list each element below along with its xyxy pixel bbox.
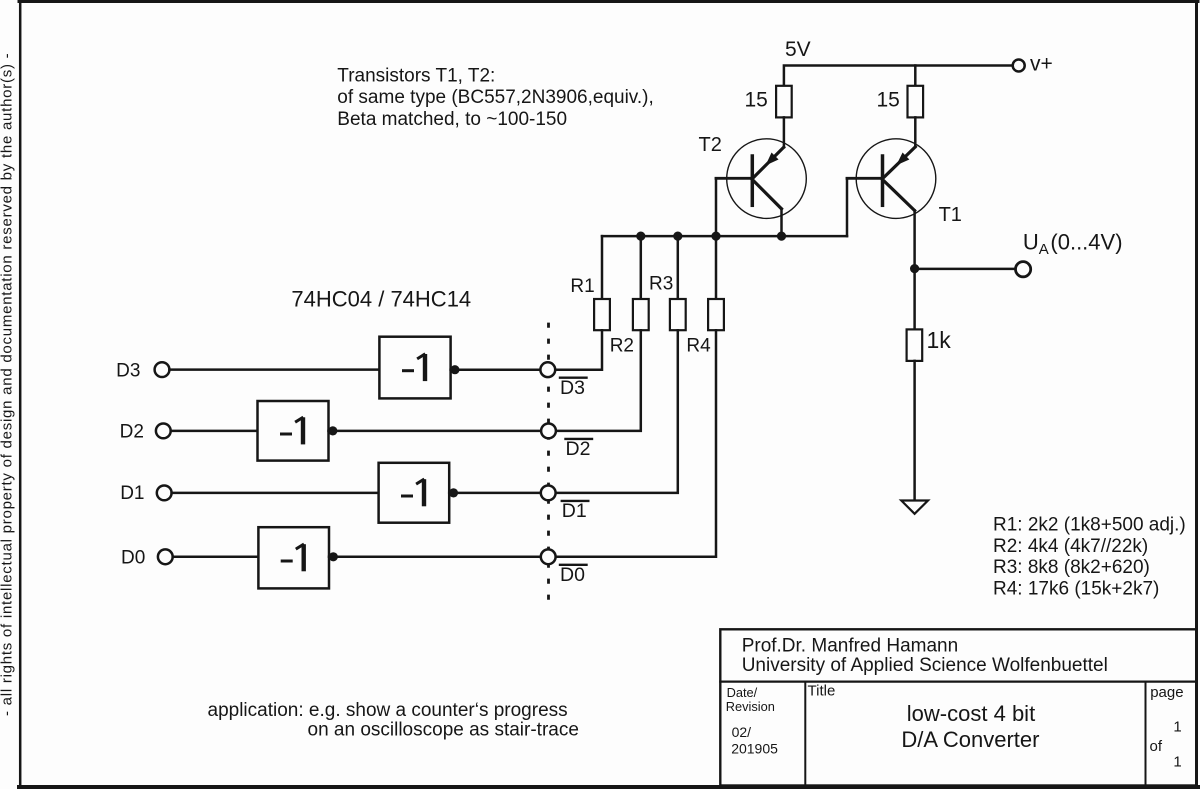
wire 5V rail (784, 66, 1013, 86)
wire D3 input (169, 368, 379, 371)
resistor R3 (670, 299, 686, 330)
wire inverter D1 output (449, 492, 541, 495)
svg-text:1: 1 (1173, 754, 1181, 771)
svg-text:D0: D0 (121, 548, 145, 569)
svg-text:R3: 8k8 (8k2+620): R3: 8k8 (8k2+620) (993, 557, 1150, 578)
svg-text:Transistors T1, T2:: Transistors T1, T2: (337, 65, 495, 86)
svg-text:Title: Title (808, 683, 836, 700)
terminal UA output (1016, 262, 1031, 277)
junction dot inverter D2 output (328, 426, 337, 435)
svg-text:15: 15 (877, 89, 900, 112)
wire v+ resistor tap (914, 66, 917, 86)
terminal D3 input (155, 362, 170, 377)
svg-text:R1: 2k2 (1k8+500 adj.): R1: 2k2 (1k8+500 adj.) (993, 515, 1186, 536)
svg-text:15: 15 (745, 89, 768, 112)
note transistors T1 T2 (337, 65, 654, 130)
svg-text:D/A Converter: D/A Converter (901, 727, 1039, 752)
svg-text:D2: D2 (120, 422, 144, 443)
junction dot output node (910, 264, 919, 273)
svg-text:D1: D1 (562, 500, 587, 522)
inverter D1 (379, 463, 450, 523)
label D1bar (562, 500, 589, 522)
wire summing bus (602, 235, 847, 238)
svg-text:Date/: Date/ (727, 685, 758, 700)
svg-text:- all rights of intellectual p: - all rights of intellectual property of… (0, 53, 16, 716)
junction dot R2/bus (636, 232, 645, 241)
resistor 15 (left, T2 emitter) (776, 86, 792, 118)
junction dot R4/bus (711, 232, 720, 241)
svg-text:page: page (1150, 684, 1183, 701)
inverter D0 (258, 527, 329, 588)
svg-text:low-cost 4 bit: low-cost 4 bit (907, 701, 1035, 726)
wire output node to 1k (913, 269, 916, 330)
note application (208, 700, 579, 741)
svg-text:of same type (BC557,2N3906,equ: of same type (BC557,2N3906,equiv.), (337, 87, 654, 108)
node D1bar (541, 486, 556, 501)
label UA (0...4V) (1023, 230, 1123, 259)
note resistor values (993, 515, 1186, 600)
svg-text:5V: 5V (785, 38, 811, 61)
dotted net boundary line (547, 323, 550, 604)
junction dot inverter D1 output (449, 488, 458, 497)
resistor R4 (708, 299, 724, 330)
wire output node to terminal (915, 268, 1015, 271)
svg-text:R1: R1 (570, 276, 594, 297)
resistor R2 (633, 299, 649, 330)
svg-text:v+: v+ (1030, 53, 1053, 76)
svg-text:R2: R2 (610, 336, 634, 357)
svg-text:R4: R4 (686, 336, 711, 357)
svg-text:Prof.Dr. Manfred Hamann: Prof.Dr. Manfred Hamann (742, 636, 958, 657)
wire R2 bottom lead (556, 330, 640, 431)
svg-text:A: A (1039, 241, 1049, 258)
junction dot inverter D0 output (329, 552, 338, 561)
wire D2 input (171, 430, 258, 433)
svg-text:of: of (1150, 738, 1163, 755)
junction dot inverter D3 output (450, 365, 459, 374)
svg-text:Beta matched, to ~100-150: Beta matched, to ~100-150 (337, 109, 567, 130)
title block (720, 629, 1196, 785)
wire R2 top lead (640, 236, 643, 299)
svg-text:02/: 02/ (732, 724, 752, 740)
title block title cell (808, 683, 1040, 752)
svg-text:T2: T2 (699, 134, 722, 156)
wire T1 emitter lead (914, 117, 917, 146)
label D2bar (566, 438, 593, 460)
junction dot T2 collector/bus (777, 232, 786, 241)
svg-text:Revision: Revision (726, 699, 775, 714)
inverter D2 (258, 401, 329, 461)
resistor 15 (right, T1 emitter) (908, 86, 924, 118)
title block author (742, 636, 1108, 677)
transistor T2 (716, 139, 806, 237)
svg-text:U: U (1023, 230, 1039, 255)
terminal v+ (1013, 60, 1025, 72)
title block page cell (1150, 684, 1184, 771)
wire T2 emitter lead (783, 117, 786, 147)
inverter D3 (379, 337, 450, 399)
svg-text:on an oscilloscope as stair-tr: on an oscilloscope as stair-trace (308, 720, 579, 741)
wire inverter D2 output (329, 430, 542, 433)
svg-text:74HC04 / 74HC14: 74HC04 / 74HC14 (291, 287, 471, 312)
svg-text:University of Applied Science: University of Applied Science Wolfenbuet… (742, 655, 1108, 676)
node D3bar (540, 362, 555, 377)
wire T2 base / R4 lead (715, 178, 718, 299)
svg-text:D1: D1 (120, 483, 144, 504)
svg-text:R4: 17k6 (15k+2k7): R4: 17k6 (15k+2k7) (993, 578, 1159, 599)
wire R3 top lead (677, 236, 680, 299)
wire 1k to ground (913, 361, 916, 501)
svg-text:R3: R3 (649, 274, 673, 295)
svg-text:D3: D3 (560, 377, 585, 399)
wire inverter D3 output (451, 368, 541, 371)
label D0bar (560, 564, 587, 586)
svg-text:(0...4V): (0...4V) (1050, 230, 1122, 255)
transistor T1 (847, 139, 936, 269)
node D0bar (541, 549, 556, 564)
label D3bar (560, 377, 587, 399)
svg-text:application: e.g. show a count: application: e.g. show a counter‘s progr… (208, 700, 568, 721)
terminal D0 input (158, 549, 173, 564)
svg-text:D2: D2 (566, 438, 591, 460)
resistor R1 (594, 299, 610, 330)
wire R1 bottom lead (555, 330, 602, 370)
svg-text:R2: 4k4 (4k7//22k): R2: 4k4 (4k7//22k) (993, 536, 1148, 557)
node D2bar (541, 424, 556, 439)
svg-text:1: 1 (1173, 718, 1181, 735)
title block date cell (726, 685, 778, 757)
ground (901, 501, 928, 514)
svg-text:201905: 201905 (731, 741, 778, 757)
wire R4 bottom lead (556, 330, 716, 557)
wire D0 input (173, 556, 259, 559)
svg-text:D0: D0 (560, 564, 585, 586)
svg-text:D3: D3 (116, 361, 140, 382)
terminal D1 input (157, 486, 172, 501)
wire T1 base down to bus (846, 178, 849, 236)
svg-text:T1: T1 (939, 204, 962, 226)
svg-text:1k: 1k (927, 327, 952, 353)
junction dot R3/bus (673, 232, 682, 241)
resistor 1k (907, 329, 923, 361)
wire R3 bottom lead (556, 330, 678, 493)
terminal D2 input (156, 424, 171, 439)
wire D1 input (172, 492, 379, 495)
wire R1 top lead (601, 236, 604, 299)
wire inverter D0 output (329, 556, 541, 559)
